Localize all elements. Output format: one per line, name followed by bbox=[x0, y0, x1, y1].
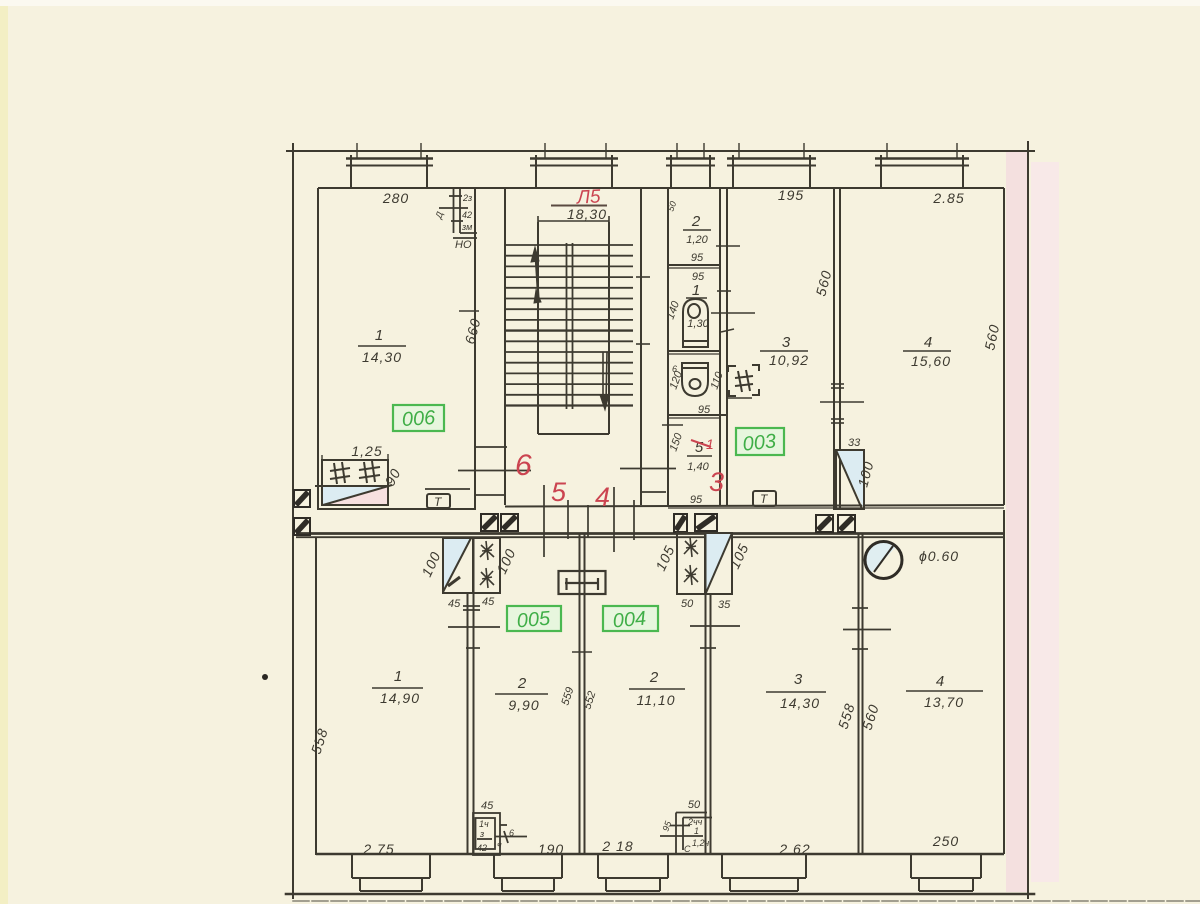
room3/room4 double wall bbox=[833, 188, 835, 510]
bottom half interior walls bbox=[316, 510, 1004, 855]
svg-text:004: 004 bbox=[612, 608, 647, 633]
L5 fraction line bbox=[551, 205, 607, 207]
svg-text:2: 2 bbox=[517, 675, 527, 692]
bottom window B1 bbox=[352, 855, 430, 891]
wall C double bbox=[705, 534, 707, 853]
door ticks wall C bbox=[690, 626, 740, 648]
svg-text:3: 3 bbox=[794, 671, 803, 688]
bottom window B4 bbox=[722, 855, 806, 891]
svg-text:10,92: 10,92 bbox=[769, 352, 809, 368]
svg-text:2: 2 bbox=[691, 213, 701, 230]
wc column right double wall bbox=[719, 188, 721, 506]
bottom interior wall bbox=[316, 853, 1004, 856]
svg-text:13,70: 13,70 bbox=[924, 694, 964, 710]
interior top wall line bbox=[318, 188, 1004, 510]
interior left wall top half (room 1) bbox=[317, 188, 319, 510]
green label 005 bbox=[507, 606, 561, 632]
window wall A pair: hatched box bbox=[474, 538, 501, 593]
stray ink dot left margin bbox=[262, 674, 268, 680]
bottom window B5 bbox=[911, 855, 981, 891]
svg-text:95: 95 bbox=[690, 494, 703, 506]
wall B rooms 2/2 double bbox=[579, 534, 581, 853]
svg-text:1: 1 bbox=[692, 282, 700, 299]
closet bottom wall C bbox=[660, 813, 712, 856]
staircase stringer rectangle bbox=[538, 222, 609, 434]
window wall C pair: blue box bbox=[706, 533, 733, 594]
svg-text:14,30: 14,30 bbox=[362, 349, 402, 365]
staircase steps bbox=[505, 245, 633, 406]
svg-text:250: 250 bbox=[932, 833, 959, 849]
flue pair below stair hall bbox=[481, 514, 518, 531]
svg-text:190: 190 bbox=[538, 841, 564, 857]
svg-text:35: 35 bbox=[718, 599, 731, 611]
svg-text:14,30: 14,30 bbox=[780, 695, 820, 711]
svg-text:33: 33 bbox=[848, 437, 861, 449]
hash symbol dashed box bbox=[728, 365, 759, 396]
svg-text:1,2ч: 1,2ч bbox=[692, 838, 710, 848]
wall A rooms1/2 double bbox=[467, 593, 469, 855]
svg-text:3: 3 bbox=[709, 467, 724, 497]
top window W-wc bbox=[666, 143, 715, 188]
svg-text:4: 4 bbox=[595, 482, 610, 512]
svg-text:1,40: 1,40 bbox=[687, 461, 709, 473]
svg-text:50: 50 bbox=[688, 799, 701, 811]
svg-text:2.85: 2.85 bbox=[932, 190, 964, 206]
svg-text:1: 1 bbox=[394, 668, 402, 685]
svg-text:95: 95 bbox=[698, 404, 711, 416]
dim tick room1 right wall bbox=[459, 310, 479, 312]
toilet 1 (facing up) bbox=[683, 299, 708, 347]
flue pair below room3 bbox=[816, 515, 855, 532]
wall D rooms3/4 double bbox=[858, 533, 860, 853]
svg-text:1: 1 bbox=[375, 327, 383, 344]
svg-text:45: 45 bbox=[482, 596, 495, 608]
window room3/4 wall (33/100) bbox=[836, 450, 864, 509]
svg-text:45: 45 bbox=[481, 800, 494, 812]
svg-text:95: 95 bbox=[691, 252, 704, 264]
svg-text:НО: НО bbox=[455, 239, 472, 251]
wc column divider 1 bbox=[668, 265, 720, 268]
wc column divider 2 bbox=[668, 351, 720, 354]
closet top-right of room1 bbox=[439, 189, 477, 238]
top window W2 bbox=[530, 143, 618, 188]
svg-text:006: 006 bbox=[401, 407, 437, 431]
room1 top: right wall bbox=[474, 188, 476, 510]
door ticks wc wall bbox=[662, 246, 755, 425]
door tick wall A bbox=[448, 606, 500, 648]
bottom wall of top-half right section bbox=[505, 505, 1004, 507]
svg-text:з: з bbox=[479, 829, 484, 839]
staircase right wall bbox=[640, 188, 642, 505]
svg-text:280: 280 bbox=[382, 190, 409, 206]
svg-text:4: 4 bbox=[936, 673, 944, 690]
top window W1 bbox=[346, 143, 433, 188]
svg-text:1,30: 1,30 bbox=[687, 318, 709, 330]
T symbol room1 bbox=[427, 494, 450, 508]
svg-text:2 62: 2 62 bbox=[778, 841, 810, 857]
corridor door jambs bbox=[544, 469, 676, 558]
svg-text:45: 45 bbox=[448, 598, 461, 610]
svg-text:2: 2 bbox=[649, 669, 659, 686]
svg-text:ч: ч bbox=[497, 840, 502, 850]
outer wall right bbox=[1027, 142, 1029, 898]
svg-text:50: 50 bbox=[681, 598, 694, 610]
svg-text:3: 3 bbox=[782, 334, 791, 351]
svg-text:15,60: 15,60 bbox=[911, 353, 951, 369]
interior left wall bottom half bbox=[315, 537, 317, 855]
svg-text:18,30: 18,30 bbox=[567, 206, 607, 222]
staircase left wall bbox=[504, 188, 506, 447]
corridor wall (between halves) bbox=[296, 534, 1004, 538]
svg-text:5: 5 bbox=[551, 477, 567, 507]
wc column left wall bbox=[667, 188, 669, 506]
svg-text:2 18: 2 18 bbox=[601, 838, 633, 854]
wc column divider 3 bbox=[668, 415, 727, 418]
svg-text:005: 005 bbox=[516, 608, 552, 633]
toilet 2 (facing left) bbox=[682, 363, 708, 396]
outer wall top bbox=[287, 150, 1034, 152]
svg-text:1: 1 bbox=[694, 826, 699, 836]
ticks stair right wall bbox=[636, 276, 650, 278]
svg-text:4: 4 bbox=[924, 334, 932, 351]
scan artifact bottom line bbox=[293, 900, 1200, 902]
top window W3 bbox=[727, 143, 816, 188]
window 1,25 room1 bottom bbox=[315, 454, 392, 505]
svg-text:14,90: 14,90 bbox=[380, 690, 420, 706]
door jamb tick left of room1 bottom bbox=[425, 488, 470, 490]
svg-text:003: 003 bbox=[742, 430, 777, 455]
bottom window B3 bbox=[598, 855, 668, 891]
staircase center stringers bbox=[567, 243, 573, 409]
green label 004 bbox=[603, 606, 658, 632]
svg-text:1ч: 1ч bbox=[479, 819, 489, 829]
door ticks for door 6 bbox=[458, 447, 531, 495]
svg-text:9,90: 9,90 bbox=[508, 697, 539, 713]
svg-text:зм: зм bbox=[461, 222, 472, 232]
svg-text:11,10: 11,10 bbox=[637, 692, 676, 708]
stair down-arrow right bbox=[600, 352, 609, 410]
hash symbol window 1,25 bbox=[330, 461, 380, 484]
staircase dim line 18,30 bbox=[538, 216, 609, 227]
green label 003 bbox=[736, 428, 784, 456]
svg-text:ϕ0.60: ϕ0.60 bbox=[919, 548, 959, 564]
bottom window B2 bbox=[494, 855, 562, 891]
window wall A pair: blue box bbox=[443, 538, 473, 593]
outer wall bottom bbox=[286, 893, 1034, 896]
pink tint top right corner bbox=[1031, 162, 1059, 882]
door ticks wall D lower bbox=[843, 608, 891, 649]
right interior wall top half bbox=[1003, 188, 1005, 505]
window wall C pair: hatched box bbox=[677, 533, 705, 594]
svg-text:1: 1 bbox=[706, 436, 714, 452]
svg-text:2 75: 2 75 bbox=[362, 841, 394, 857]
right interior wall bottom half bbox=[1003, 510, 1005, 854]
svg-text:6: 6 bbox=[515, 449, 532, 482]
svg-text:1,20: 1,20 bbox=[686, 234, 708, 246]
closet bottom wall A bbox=[473, 813, 527, 855]
svg-text:6: 6 bbox=[509, 828, 514, 838]
pink wall tint right bbox=[1006, 152, 1027, 892]
svg-text:С: С bbox=[684, 844, 691, 854]
T symbol room3 bbox=[753, 491, 776, 506]
svg-text:1,25: 1,25 bbox=[351, 443, 382, 459]
svg-text:42: 42 bbox=[477, 843, 487, 853]
svg-text:6: 6 bbox=[672, 364, 677, 374]
room1 top: bottom wall bbox=[318, 508, 475, 510]
ticks wall D bbox=[820, 384, 864, 423]
left scan strip bbox=[0, 0, 8, 904]
top scan strip bbox=[0, 0, 1200, 6]
outer wall left bbox=[292, 144, 294, 898]
tick wall B bbox=[572, 651, 592, 653]
circle vent room4 bbox=[864, 542, 902, 579]
flue pair left wall upper bbox=[294, 490, 310, 535]
top window W4 bbox=[875, 143, 969, 188]
svg-text:2з: 2з bbox=[462, 193, 472, 203]
svg-text:42: 42 bbox=[462, 210, 472, 220]
door symbol between 005/004 bbox=[559, 571, 606, 594]
flue pair below wc bbox=[674, 514, 717, 532]
stair up-arrow left bbox=[531, 247, 541, 303]
svg-text:195: 195 bbox=[778, 187, 804, 203]
green label 006 bbox=[393, 405, 444, 431]
